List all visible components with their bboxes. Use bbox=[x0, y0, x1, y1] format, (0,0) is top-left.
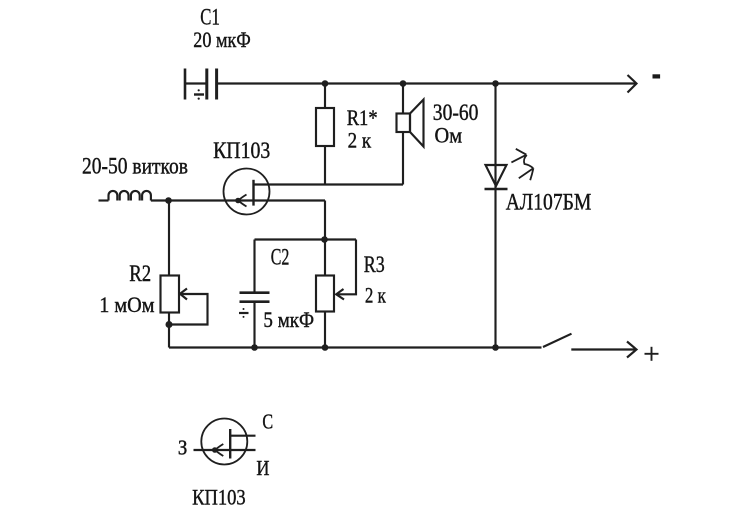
svg-text:30-60: 30-60 bbox=[433, 100, 479, 125]
svg-text:З: З bbox=[178, 436, 188, 460]
node top speaker bbox=[400, 80, 407, 87]
svg-text:1 мОм: 1 мОм bbox=[99, 292, 154, 317]
svg-text:Ом: Ом bbox=[435, 123, 463, 148]
node R2 wiper junction bbox=[166, 321, 173, 328]
wire bottom rail bbox=[169, 346, 542, 348]
capacitor C2 bbox=[239, 240, 270, 348]
svg-text:R1*: R1* bbox=[347, 105, 378, 130]
wire top negative rail bbox=[218, 82, 636, 84]
svg-text:КП103: КП103 bbox=[213, 138, 270, 163]
node gate junction bbox=[165, 197, 172, 204]
svg-text:И: И bbox=[256, 456, 269, 480]
switch SA1 blade bbox=[543, 334, 572, 347]
label + bbox=[645, 347, 659, 361]
svg-text:20 мкФ: 20 мкФ bbox=[193, 27, 250, 52]
wire source node rail bbox=[255, 201, 357, 240]
LED VD1 АЛ107БМ bbox=[485, 84, 534, 348]
svg-text:R3: R3 bbox=[364, 252, 385, 277]
node top R1 bbox=[322, 80, 329, 87]
node source junction bbox=[321, 236, 328, 243]
node R3 bottom bbox=[322, 344, 329, 351]
svg-text:КП103: КП103 bbox=[192, 485, 246, 510]
node top LED bbox=[492, 80, 499, 87]
potentiometer R2 bbox=[161, 276, 208, 348]
node C2 bottom bbox=[251, 344, 258, 351]
svg-text:20-50 витков: 20-50 витков bbox=[82, 154, 188, 179]
svg-text:C2: C2 bbox=[271, 245, 290, 270]
svg-text:2 к: 2 к bbox=[348, 128, 372, 153]
wire gate-source line bbox=[169, 199, 326, 201]
inductor L1 bbox=[99, 191, 169, 201]
wire drain rail bbox=[254, 183, 404, 185]
speaker BA1 bbox=[397, 84, 424, 185]
label - bbox=[653, 74, 661, 78]
transistor legend symbol КП103 bbox=[194, 419, 256, 465]
svg-text:2 к: 2 к bbox=[365, 283, 386, 308]
node LED bottom bbox=[492, 344, 499, 351]
capacitor C1 bbox=[185, 69, 217, 100]
terminal arrow minus bbox=[628, 75, 637, 93]
svg-text:5 мкФ: 5 мкФ bbox=[263, 307, 314, 332]
terminal arrow plus bbox=[571, 342, 636, 358]
transistor Q1 KP103 bbox=[224, 169, 270, 215]
svg-text:С: С bbox=[262, 410, 273, 434]
wire junction to R2 bbox=[168, 201, 170, 276]
svg-text:АЛ107БМ: АЛ107БМ bbox=[506, 190, 592, 215]
svg-text:R2: R2 bbox=[129, 261, 151, 286]
resistor R1 bbox=[316, 84, 334, 185]
potentiometer R3 bbox=[316, 240, 356, 348]
